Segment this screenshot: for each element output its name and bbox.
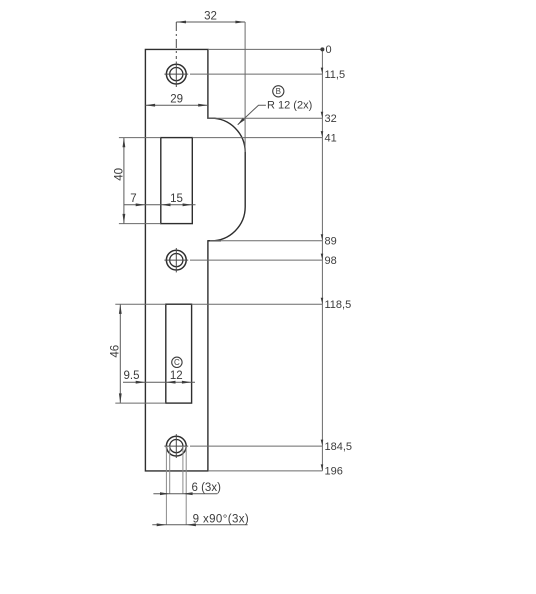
svg-text:7: 7 xyxy=(130,193,136,205)
datum label B xyxy=(273,86,284,97)
radius callout R12 xyxy=(238,100,313,125)
dimension 6 (3x) xyxy=(153,482,221,495)
svg-text:0: 0 xyxy=(326,44,332,56)
dimension 32 top xyxy=(176,11,245,153)
svg-text:11,5: 11,5 xyxy=(325,69,346,81)
dimension 40 xyxy=(113,138,161,224)
svg-text:98: 98 xyxy=(325,255,337,267)
ordinate 41 xyxy=(192,131,336,144)
ordinate 98 xyxy=(190,254,337,267)
svg-text:46: 46 xyxy=(109,345,121,358)
dimension 9x90deg (3x) xyxy=(152,513,249,526)
svg-text:184,5: 184,5 xyxy=(325,441,353,453)
dimension 7 and 15 xyxy=(124,193,196,206)
centerline above hole H1 xyxy=(175,22,177,59)
plate outline xyxy=(145,49,245,471)
screw hole H2 middle xyxy=(164,248,188,272)
ordinate axis xyxy=(321,49,323,471)
deadbolt cutout window xyxy=(166,304,192,403)
svg-text:40: 40 xyxy=(113,168,125,181)
ordinate 11,5 xyxy=(190,68,345,81)
datum label C xyxy=(172,357,182,367)
svg-text:89: 89 xyxy=(325,236,337,248)
screw hole H1 top xyxy=(164,62,188,88)
svg-text:32: 32 xyxy=(204,11,217,23)
svg-text:196: 196 xyxy=(325,466,343,478)
ordinate 118,5 xyxy=(192,298,352,311)
countersink extension lines at hole H3 xyxy=(166,446,186,525)
dimension 29 xyxy=(145,94,208,107)
svg-text:9 x90°(3x): 9 x90°(3x) xyxy=(193,513,250,525)
svg-text:B: B xyxy=(276,87,281,96)
svg-text:41: 41 xyxy=(325,132,337,144)
svg-text:6 (3x): 6 (3x) xyxy=(192,482,222,494)
latch cutout window xyxy=(161,138,193,224)
svg-text:C: C xyxy=(174,358,180,367)
svg-text:9.5: 9.5 xyxy=(124,370,140,382)
ordinate 32 xyxy=(208,112,337,125)
svg-text:15: 15 xyxy=(170,193,183,205)
svg-text:118,5: 118,5 xyxy=(325,299,352,311)
svg-text:32: 32 xyxy=(325,113,337,125)
ordinate 184,5 xyxy=(190,440,352,453)
dimension 46 xyxy=(109,304,166,403)
svg-text:R 12 (2x): R 12 (2x) xyxy=(267,100,312,112)
dimension 9.5 and 12 xyxy=(123,370,195,384)
screw hole H3 bottom xyxy=(164,434,188,458)
svg-text:12: 12 xyxy=(170,370,183,382)
svg-text:29: 29 xyxy=(170,94,183,106)
ordinate 89 xyxy=(210,234,337,247)
ordinate 0 xyxy=(208,44,332,56)
ordinate 196 xyxy=(208,464,343,477)
